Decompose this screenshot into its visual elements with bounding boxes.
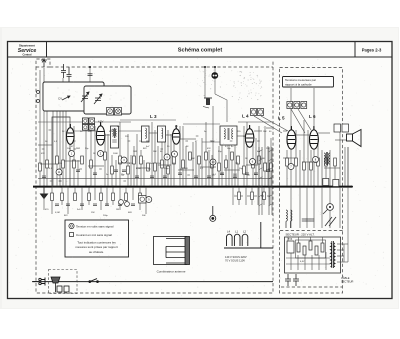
lead tick: [185, 140, 188, 142]
lead tick: [69, 135, 72, 137]
capacitor C17: [266, 170, 270, 172]
wire: [158, 164, 171, 166]
wire: [255, 138, 257, 186]
resistor R39: [125, 193, 128, 201]
tube V4 overlay: [245, 125, 253, 147]
meter M1: [323, 204, 333, 214]
wire: [115, 160, 117, 186]
lamp box: [115, 108, 122, 116]
wire: [38, 121, 131, 123]
tube V5 overlay: [287, 126, 296, 149]
tube V2: [96, 122, 104, 145]
wire dial 2: [214, 67, 216, 72]
svg-text:Tension en volts sans signal: Tension en volts sans signal: [76, 224, 114, 228]
wire: [52, 96, 54, 186]
capacitor C Ant 1: [61, 64, 66, 78]
resistor R33: [51, 193, 54, 201]
junction: [347, 186, 349, 188]
trimmer CV1: [81, 92, 89, 102]
wire: [202, 141, 220, 143]
wire: [221, 126, 223, 186]
svg-text:18K: 18K: [153, 151, 157, 153]
svg-text:47K: 47K: [207, 148, 211, 150]
svg-text:Pages 2-3: Pages 2-3: [362, 48, 382, 53]
wire: [192, 142, 194, 186]
IF T1 windings: [112, 128, 116, 142]
junction: [112, 186, 114, 188]
wire: [310, 150, 312, 186]
test point 7: [288, 164, 294, 170]
lead tick: [265, 162, 268, 164]
svg-text:L1: L1: [235, 230, 239, 234]
wire: [67, 187, 69, 214]
wire: [317, 140, 319, 186]
wire: [64, 160, 80, 162]
lead tick: [268, 168, 271, 170]
wire: [290, 187, 292, 228]
wire antenna feed: [89, 67, 91, 82]
test point 8: [313, 157, 319, 163]
circled indicator: [287, 102, 293, 109]
test point 3: [121, 157, 127, 163]
fuse box F: [107, 108, 114, 116]
padder cell: [89, 125, 95, 131]
resistor R46: [303, 162, 306, 170]
wire dial 3: [214, 79, 216, 94]
resistor R8: [104, 152, 107, 160]
wire: [307, 130, 309, 186]
wire: [251, 187, 253, 205]
tube V1 overlay: [67, 124, 75, 144]
wire: [318, 132, 330, 134]
switch arm curve: [215, 94, 227, 122]
wire: [329, 150, 331, 186]
wire: [234, 142, 236, 186]
resistor R41: [238, 192, 241, 200]
wire: [65, 96, 67, 186]
wire: [40, 163, 56, 165]
svg-text:50K: 50K: [142, 215, 146, 217]
svg-text:5Y3: 5Y3: [288, 238, 293, 241]
wire: [52, 116, 70, 118]
tube V3 overlay: [172, 125, 180, 144]
capacitor C6: [122, 170, 126, 172]
svg-text:L2: L2: [243, 230, 247, 234]
wire: [252, 134, 254, 186]
wire: [61, 187, 63, 205]
wire: [73, 126, 75, 186]
junction: [89, 66, 91, 68]
lead tick: [210, 140, 213, 142]
lamp box overlay: [115, 108, 122, 116]
wire: [269, 187, 271, 205]
svg-text:Schéma complet: Schéma complet: [178, 48, 223, 54]
capacitor C3: [88, 74, 93, 76]
capacitor C14: [233, 176, 237, 178]
wire: [185, 146, 187, 186]
trimmer CV2: [94, 94, 102, 104]
wire: [88, 187, 90, 205]
wire: [296, 134, 309, 136]
capacitor C22: [105, 204, 109, 206]
fuse box F overlay: [107, 108, 114, 116]
wire: [237, 135, 245, 137]
wire: [302, 161, 318, 163]
switch S2: [325, 217, 336, 226]
wire: [120, 119, 176, 121]
resistor R47: [310, 162, 313, 170]
lead tick: [230, 140, 233, 142]
junction: [204, 66, 206, 68]
coil L3 secondary winding: [162, 128, 163, 138]
resistor R43: [263, 192, 266, 200]
outer frame: [8, 42, 393, 299]
wire: [224, 169, 240, 171]
wire: [132, 187, 134, 200]
svg-text:15K: 15K: [91, 212, 95, 214]
test point 5: [172, 151, 178, 157]
capacitor C16: [254, 173, 258, 175]
wire: [238, 121, 272, 123]
capacitor C9: [163, 176, 167, 178]
svg-text:mesures sont prises par rappor: mesures sont prises par rapport: [75, 245, 118, 249]
wire: [167, 130, 169, 186]
wire: [243, 126, 245, 186]
antenna switch block: [154, 237, 190, 265]
test point 10: [210, 159, 216, 165]
wire: [143, 160, 145, 186]
shield box overlay 1: [43, 82, 104, 111]
ground symbol: [41, 187, 48, 199]
wire: [335, 139, 346, 141]
wire: [258, 126, 260, 186]
tube V5: [287, 126, 296, 149]
resistor R38: [112, 193, 115, 201]
resistor R2: [46, 160, 49, 168]
mains filter dashed box: [49, 270, 78, 294]
wire: [118, 162, 130, 164]
wire: [173, 142, 175, 186]
resistor R100: [297, 243, 300, 252]
svg-text:1M: 1M: [172, 163, 175, 165]
wire: [211, 155, 213, 186]
tuning gang shield box 1: [43, 82, 104, 111]
clavier switch bank: [259, 147, 273, 215]
lead tick: [146, 140, 149, 142]
IF transformer T2 can: [220, 126, 237, 145]
band indicator B: [258, 109, 264, 116]
wire: [205, 122, 207, 186]
heater bus: [38, 178, 272, 180]
lead tick: [128, 140, 131, 142]
wire: [62, 78, 64, 186]
capacitor C20: [80, 204, 84, 206]
wire: [263, 187, 265, 205]
capacitor C15: [245, 173, 249, 175]
svg-text:Tout indication contenues les: Tout indication contenues les: [77, 240, 116, 244]
padder cell: [83, 125, 89, 131]
svg-text:L 3: L 3: [150, 114, 157, 119]
capacitor C24: [131, 204, 135, 206]
wire: [178, 169, 194, 171]
wire: [254, 130, 262, 132]
wire: [136, 134, 138, 186]
wire: [106, 187, 108, 205]
resistor R7: [90, 160, 93, 168]
resistor R27: [237, 156, 240, 164]
lead tick: [123, 180, 126, 182]
junction: [259, 186, 261, 188]
wire: [133, 146, 135, 186]
bottom mains bus: [32, 281, 273, 283]
resistor R42: [251, 192, 254, 200]
resistor R11: [127, 166, 130, 174]
wire: [344, 147, 346, 186]
speckle in shield box: [58, 88, 126, 107]
wire: [119, 187, 121, 210]
lead tick: [187, 174, 190, 176]
chassis dashed outline (left): [36, 59, 273, 293]
lead tick: [79, 168, 82, 170]
coil L3 winding: [145, 128, 146, 138]
svg-text:rapport à la cathode: rapport à la cathode: [285, 82, 312, 86]
power section outer box: [285, 237, 341, 273]
svg-text:L 6: L 6: [309, 114, 316, 119]
speckle: [197, 70, 262, 101]
wire: [339, 125, 341, 186]
wire: [107, 134, 109, 186]
lead tick: [267, 195, 270, 197]
antenna symbol top left: [41, 60, 47, 67]
main ground bus: [33, 186, 352, 188]
wire dial down: [212, 106, 214, 186]
terminal box: [334, 124, 341, 132]
resistor R22: [205, 152, 208, 160]
wire: [149, 132, 157, 134]
junction: [290, 186, 292, 188]
wire: [266, 127, 272, 129]
lead tick: [247, 195, 250, 197]
resistor R9: [111, 166, 114, 174]
lead tick: [73, 140, 76, 142]
circled indicator: [301, 102, 307, 109]
junction: [226, 186, 228, 188]
capacitor C3: [76, 170, 80, 172]
wire: [119, 130, 141, 132]
capacitor C18: [55, 204, 59, 206]
pointer diagonal 3: [291, 109, 305, 133]
capacitor C8: [150, 176, 154, 178]
junction: [214, 66, 216, 68]
CV pointer arrow: [62, 96, 70, 100]
resistor R31: [264, 163, 267, 171]
svg-text:47K: 47K: [41, 153, 45, 155]
resistor R30: [258, 156, 261, 164]
wire: [264, 126, 266, 186]
rectifier block: [287, 241, 294, 253]
indicator circle: [125, 202, 130, 207]
wire: [295, 130, 297, 186]
padder grid: [83, 118, 89, 124]
band indicator A: [251, 109, 257, 116]
capacitor plates: [310, 219, 314, 221]
mains switch: [89, 279, 99, 283]
oscillator block box left: [52, 117, 70, 187]
capacitor C101 electrolytic: [293, 274, 299, 286]
coil L3 primary: [142, 126, 150, 142]
wire: [43, 187, 45, 210]
junction: [43, 186, 45, 188]
wire: [283, 130, 287, 132]
wire: [218, 146, 220, 186]
resistor R101: [303, 246, 306, 255]
wire: [111, 155, 113, 186]
resistor R32: [270, 163, 273, 171]
resistor R3: [56, 156, 59, 164]
resistor block A: [323, 179, 329, 186]
wire: [81, 187, 83, 210]
choke L10: [286, 210, 287, 228]
junction: [313, 186, 315, 188]
svg-text:L 4: L 4: [242, 114, 249, 119]
wire: [325, 155, 327, 186]
svg-text:70 V SOUS 110V: 70 V SOUS 110V: [225, 259, 245, 263]
trimmer CV2: [94, 94, 102, 104]
resistor R50: [334, 158, 337, 166]
wire: [270, 138, 272, 186]
junction: [212, 186, 214, 188]
wire: [139, 187, 141, 210]
capacitor C Ant 2: [67, 67, 72, 82]
wire: [166, 134, 172, 136]
lead tick: [236, 162, 239, 164]
IF T2 windings: [224, 128, 233, 140]
wire: [43, 68, 45, 186]
wire: [321, 187, 323, 228]
lead tick: [59, 180, 62, 182]
wire: [151, 122, 153, 186]
capacitor C12: [207, 176, 211, 178]
IF transformer T1 can: [111, 126, 119, 148]
wire: [324, 167, 340, 169]
resistor R6: [81, 156, 84, 164]
wire: [321, 150, 323, 186]
junction: [149, 186, 151, 188]
tube V6 overlay: [310, 126, 319, 149]
svg-text:140 V SOUS 220V: 140 V SOUS 220V: [225, 255, 247, 259]
svg-text:12K: 12K: [88, 131, 92, 133]
test point 9: [146, 197, 152, 203]
junction: [129, 186, 131, 188]
loop antenna coils: [224, 222, 273, 248]
indicator circle: [119, 200, 124, 205]
pointer diagonal 2: [261, 116, 288, 131]
test point 2: [98, 151, 104, 157]
svg-text:100K: 100K: [113, 153, 118, 155]
lead tick: [247, 129, 250, 131]
wire: [257, 187, 259, 205]
lead tick: [99, 168, 102, 170]
junction: [100, 186, 102, 188]
lead tick: [180, 168, 183, 170]
wire: [246, 164, 258, 166]
resistor R21: [198, 156, 201, 164]
wire dial 1: [204, 67, 206, 98]
resistor R12: [133, 156, 136, 164]
resistor R18: [173, 156, 176, 164]
wire: [231, 160, 233, 186]
wire: [201, 138, 203, 186]
tube V2 overlay: [96, 122, 104, 145]
capacitor C2: [58, 173, 62, 175]
wire: [119, 122, 121, 186]
tube V4: [245, 125, 253, 147]
lead tick: [247, 174, 250, 176]
wire: [145, 187, 147, 214]
resistor R19: [182, 160, 185, 168]
wire: [334, 160, 336, 186]
resistor R104: [321, 243, 324, 252]
tuning gang shield box 2: [84, 86, 131, 114]
wire: [299, 150, 301, 186]
wire: [85, 122, 87, 186]
wire: [125, 187, 127, 205]
wire: [105, 134, 110, 136]
svg-text:Courant en mA sans signal: Courant en mA sans signal: [76, 233, 112, 237]
resistor R29: [252, 160, 255, 168]
terminal circle: [37, 91, 40, 94]
chassis dashed outline (right / power unit): [280, 68, 344, 294]
lead tick: [196, 135, 199, 137]
junction: [329, 186, 331, 188]
resistor R40: [139, 193, 142, 201]
wire: [130, 155, 132, 186]
capacitor C21: [93, 204, 97, 206]
wire: [238, 187, 240, 205]
resistor R13: [140, 156, 143, 164]
wire: [100, 187, 102, 210]
lead tick: [212, 174, 215, 176]
resistor R24: [218, 163, 221, 171]
junction: [60, 186, 62, 188]
junction: [89, 186, 91, 188]
svg-text:1M: 1M: [116, 209, 119, 211]
resistor R14: [147, 163, 150, 171]
svg-text:L4: L4: [227, 230, 231, 234]
wire: [347, 147, 349, 186]
resistor R23: [211, 160, 214, 168]
capacitor C5: [114, 170, 118, 172]
lead tick: [254, 195, 257, 197]
lead tick: [148, 168, 151, 170]
resistor R17: [167, 166, 170, 174]
power transformer: [331, 241, 336, 268]
wire: [329, 187, 331, 228]
note box: tensions mesurées: [283, 77, 334, 88]
tube V1: [67, 124, 75, 144]
lead tick: [121, 174, 124, 176]
wire: [157, 146, 159, 186]
mains filter components: [51, 277, 69, 292]
resistor R16: [161, 160, 164, 168]
resistor R49: [325, 158, 328, 166]
junction: [351, 186, 353, 188]
resistor R10: [119, 156, 122, 164]
wire: [88, 165, 104, 167]
lead tick: [49, 129, 52, 131]
capacitor C23: [118, 204, 122, 206]
wire: [39, 70, 41, 186]
